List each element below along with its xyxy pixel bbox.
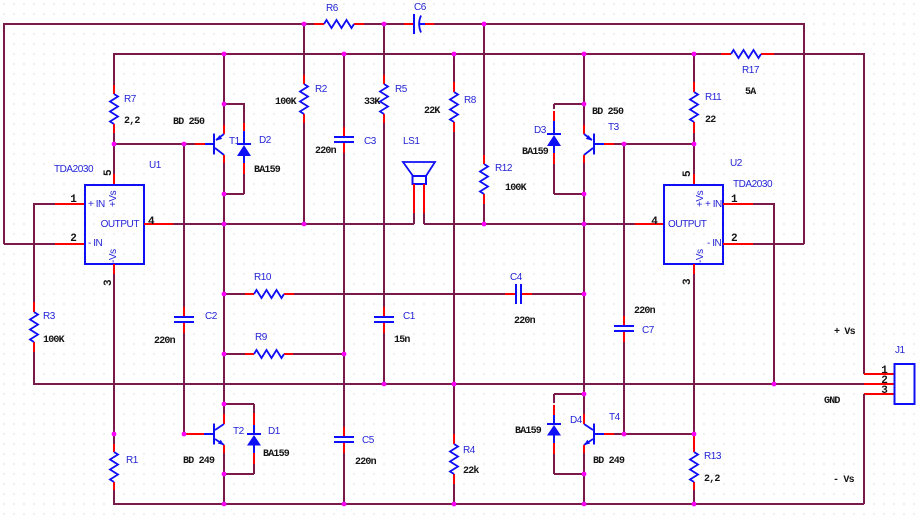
wire R5 to C1	[383, 123, 385, 307]
op-amp U1 TDA2030 box	[85, 185, 144, 264]
resistor R2 column from top rail	[303, 24, 305, 75]
svg-text:33K: 33K	[364, 97, 380, 108]
wire x34 column to R3	[33, 203, 35, 302]
label U1	[54, 160, 162, 175]
svg-text:R10: R10	[254, 272, 272, 283]
wire C7 to T4 base row	[623, 342, 625, 434]
resistor R12	[480, 155, 488, 204]
resistor R7	[110, 85, 118, 133]
svg-text:100K: 100K	[43, 335, 65, 346]
svg-text:R12: R12	[495, 163, 513, 174]
label D2	[254, 135, 281, 176]
wire R13 to bottom rail	[693, 490, 695, 504]
capacitor C1	[374, 307, 394, 333]
resistor R13	[690, 434, 698, 490]
svg-text:R1: R1	[126, 455, 139, 466]
svg-text:- IN: - IN	[88, 238, 103, 249]
wire LS1 left lead	[413, 184, 415, 213]
svg-text:C4: C4	[510, 272, 523, 283]
svg-text:R2: R2	[315, 84, 328, 95]
wire x224 T1 collector upper	[223, 104, 225, 125]
wire J1 pin1 red lead	[864, 373, 894, 375]
wire R12 to row y224	[483, 204, 485, 224]
wire T4 emitter red	[583, 445, 585, 453]
wire x224 rail2 to D2 loop node	[223, 53, 225, 104]
wire D2 bottom loop	[224, 174, 244, 194]
node D1 D4 loop bottoms	[222, 472, 587, 477]
label J1 pin numbers	[881, 365, 888, 397]
label T3	[592, 107, 624, 133]
wire R8 column from rail2	[453, 54, 455, 82]
wire R1 to bottom rail corner	[113, 490, 115, 504]
svg-text:U1: U1	[149, 160, 162, 171]
svg-text:TDA2030: TDA2030	[54, 164, 94, 175]
wire x224 column output row to R10 row	[223, 224, 225, 294]
svg-text:BD 249: BD 249	[183, 456, 215, 467]
connector J1 box	[895, 364, 915, 404]
wire x584 column C4 node to T4 node	[583, 294, 585, 394]
resistor R3	[30, 302, 38, 352]
label C3	[315, 136, 377, 157]
wire R9 to C3 column	[293, 353, 344, 355]
wire C1 to gnd rail	[383, 333, 385, 384]
wire C2 column top	[183, 143, 185, 307]
wire T3 base node to U2 pin5	[693, 144, 695, 174]
svg-text:OUTPUT: OUTPUT	[668, 219, 707, 230]
label R17	[742, 65, 760, 98]
svg-text:2,2: 2,2	[124, 116, 140, 127]
pin 3 U2 red lead	[693, 264, 695, 274]
svg-text:220n: 220n	[315, 146, 337, 157]
label R13	[704, 451, 722, 485]
node bottom rail	[222, 502, 697, 507]
svg-text:BA159: BA159	[515, 426, 542, 437]
wire R5 column from top rail	[383, 24, 385, 75]
label T1	[173, 117, 241, 147]
node junctions rail2	[222, 52, 697, 57]
svg-text:100K: 100K	[275, 97, 297, 108]
wire T1 base node to U1 pin5	[113, 144, 115, 174]
diode D2 BA159	[237, 123, 251, 174]
resistor R9	[245, 350, 293, 358]
wire D1 bottom loop	[224, 464, 254, 474]
label R3	[43, 311, 65, 346]
label U2 pin names	[668, 190, 722, 263]
svg-text:R11: R11	[705, 92, 722, 103]
node R9 row	[222, 352, 347, 357]
svg-text:D4: D4	[570, 415, 583, 426]
wire LS1 right row y224 to U2 pin4	[424, 223, 635, 225]
label R11	[705, 92, 722, 126]
wire left edge column x4	[3, 23, 5, 244]
svg-text:D3: D3	[534, 125, 547, 136]
wire J1 pin2 red lead	[864, 383, 894, 385]
wire x224 T2 emitter to D1 loop	[223, 453, 225, 474]
svg-text:LS1: LS1	[403, 136, 420, 147]
diode D4 BA159	[547, 405, 561, 454]
capacitor C6	[404, 14, 434, 34]
svg-text:BA159: BA159	[522, 147, 549, 158]
svg-text:-Vs: -Vs	[695, 249, 706, 263]
wire x224 D1 loop to bottom rail	[223, 474, 225, 504]
wire T4 base row to R13 column	[614, 433, 694, 435]
svg-text:22K: 22K	[424, 106, 440, 117]
wire x584 column T3 to row y224	[583, 163, 585, 224]
wire T1 emitter lower red	[223, 155, 225, 163]
transistor T2 BD249	[184, 424, 224, 446]
svg-text:OUTPUT: OUTPUT	[101, 219, 140, 230]
wire x224 column R9 row to T2 node	[223, 354, 225, 404]
diode D3 BA159	[547, 111, 561, 164]
wire R10 to C4	[294, 293, 505, 295]
wire x224 column T1 to output row	[223, 163, 225, 224]
svg-text:220n: 220n	[154, 336, 176, 347]
resistor R11	[690, 82, 698, 133]
svg-text:+ IN: + IN	[705, 199, 722, 210]
label R2	[275, 84, 328, 108]
svg-text:R8: R8	[464, 95, 477, 106]
node D2 D3 loop tops	[222, 102, 587, 107]
wire C3 to R9 node	[343, 153, 345, 354]
wire gnd rail to R4	[453, 384, 455, 434]
svg-text:R3: R3	[43, 311, 56, 322]
wire gnd rail y384	[33, 383, 864, 385]
svg-text:+ Vs: + Vs	[834, 327, 856, 338]
capacitor C7	[614, 316, 634, 342]
svg-text:BD 250: BD 250	[592, 107, 624, 118]
svg-text:T1: T1	[229, 136, 241, 147]
label U2 pin numbers	[651, 170, 738, 285]
wire R7 to T1 base node	[113, 133, 115, 144]
label C2	[154, 311, 218, 347]
wire x804 top rail to U2 pin2	[803, 23, 805, 244]
wire x584 T3 collector upper	[583, 104, 585, 125]
wire U2 pin1 row	[723, 203, 753, 205]
wire R4 to bottom rail	[453, 484, 455, 504]
wire U2 pin1 column x774 to gnd	[773, 203, 775, 384]
svg-text:220n: 220n	[634, 306, 656, 317]
svg-text:22k: 22k	[463, 465, 479, 477]
wire C3 column from rail2	[343, 53, 345, 127]
svg-text:J1: J1	[895, 345, 906, 356]
resistor R4	[450, 434, 458, 484]
wire R11 to T3 base row node	[693, 133, 695, 144]
wire x114 rail2 to R7	[113, 53, 115, 85]
svg-text:C6: C6	[414, 2, 427, 13]
svg-text:R6: R6	[326, 3, 339, 14]
label R4	[463, 445, 479, 477]
wire x864 rail2 to J1 pin1	[863, 53, 865, 374]
capacitor C4	[505, 284, 532, 304]
wire C7 column from T3 base row	[623, 143, 625, 316]
svg-text:R17: R17	[742, 65, 760, 76]
wire C5 to bottom rail	[343, 453, 345, 504]
svg-text:TDA2030: TDA2030	[733, 179, 773, 190]
pin 5 U2 red lead	[693, 174, 695, 185]
label C1	[394, 311, 416, 346]
svg-text:BA159: BA159	[263, 449, 290, 460]
svg-text:5A: 5A	[745, 87, 756, 98]
wire U1 output row y224	[144, 223, 173, 225]
pin 3 U1 red lead	[113, 264, 115, 274]
wire T3 base row to R11 column	[614, 143, 694, 145]
svg-text:15n: 15n	[394, 335, 410, 346]
svg-text:T3: T3	[608, 122, 620, 133]
svg-text:-Vs: -Vs	[108, 249, 119, 263]
resistor R10 row from x224	[224, 293, 245, 295]
svg-text:+ IN: + IN	[88, 199, 105, 210]
label R5	[364, 84, 408, 108]
op-amp U2 TDA2030 box	[664, 185, 723, 264]
wire T3 emitter red	[583, 155, 585, 163]
resistor R2	[300, 75, 308, 123]
node R10 row	[222, 292, 587, 297]
node junctions top rail	[302, 22, 487, 27]
wire x584 D4 loop to bottom rail	[583, 474, 585, 504]
resistor R9 row from x224	[224, 353, 245, 355]
svg-text:2: 2	[70, 233, 76, 245]
resistor R1	[110, 444, 118, 490]
svg-text:D1: D1	[268, 426, 281, 437]
svg-text:C2: C2	[205, 311, 218, 322]
svg-text:R4: R4	[463, 445, 476, 456]
wire C4 to x584 column	[532, 293, 584, 295]
label D1	[263, 426, 290, 460]
wire R3 to gnd rail	[33, 352, 35, 384]
capacitor C3	[334, 127, 354, 153]
wire R12 column from top rail	[483, 24, 485, 155]
node output rows	[222, 222, 587, 227]
svg-text:R9: R9	[255, 332, 268, 343]
wire U1 pin1 row	[34, 203, 55, 205]
wire R8 to gnd rail	[453, 132, 455, 384]
wire bottom rail y504	[113, 503, 864, 505]
node gnd rail	[382, 382, 777, 387]
wire U1 pin3 column down	[113, 274, 115, 444]
label T4	[593, 412, 625, 467]
transistor T4 BD249	[584, 424, 614, 446]
svg-text:BD 249: BD 249	[593, 456, 625, 467]
wire T2 emitter red	[223, 445, 225, 453]
svg-text:GND: GND	[824, 396, 840, 407]
resistor R8	[450, 82, 458, 132]
wire R11 column from rail2	[693, 54, 695, 82]
label T2	[183, 426, 245, 467]
resistor R10	[245, 290, 294, 298]
svg-text:- IN: - IN	[707, 238, 722, 249]
node T1 T3 base rows	[112, 142, 697, 147]
wire T2 collector	[223, 404, 225, 414]
label C7	[634, 306, 656, 336]
svg-text:T4: T4	[609, 412, 621, 423]
capacitor C2	[174, 307, 194, 333]
wire T4 collector	[583, 394, 585, 414]
svg-text:D2: D2	[259, 135, 272, 146]
resistor R6 leads	[314, 23, 364, 25]
wire U2 pin3 column down	[693, 274, 695, 434]
resistor R6	[324, 20, 354, 28]
svg-text:+Vs: +Vs	[108, 190, 119, 207]
wire x584 T4 emitter to D4 loop	[583, 453, 585, 474]
wire C2 column bottom	[183, 333, 185, 434]
svg-text:2,2: 2,2	[704, 474, 720, 485]
wire x224 column R10 row to R9 row	[223, 294, 225, 354]
wire D4 top loop	[554, 394, 584, 403]
wire x584 column row224 to C4 node	[583, 224, 585, 294]
wire D4 bottom loop	[554, 454, 584, 474]
label U1 pin names	[88, 190, 139, 263]
wire U2 pin2 row	[723, 243, 753, 245]
diode D1 BA159	[247, 413, 261, 464]
svg-text:T2: T2	[233, 426, 245, 437]
label D3	[522, 125, 549, 158]
label D4	[515, 415, 583, 437]
svg-text:U2: U2	[730, 158, 743, 169]
wire D3 bottom loop	[554, 164, 584, 194]
wire D2 top loop	[224, 104, 245, 123]
label R7	[124, 94, 140, 127]
node D2 D3 loop bottoms	[222, 192, 587, 197]
pin 5 U1 red lead	[113, 174, 115, 185]
wire D3 top loop	[554, 104, 584, 109]
label U2	[730, 158, 773, 190]
wire rail2 y54	[114, 53, 864, 55]
svg-text:220n: 220n	[355, 457, 377, 468]
svg-text:100K: 100K	[505, 183, 527, 194]
wire top rail y24	[4, 23, 804, 25]
svg-text:R5: R5	[395, 84, 408, 95]
wire D1 top loop	[224, 404, 254, 413]
svg-text:2: 2	[731, 233, 737, 245]
svg-text:C1: C1	[403, 311, 416, 322]
label C4	[510, 272, 536, 327]
svg-text:- Vs: - Vs	[833, 475, 855, 486]
wire J1 pin3 red lead	[864, 393, 894, 395]
wire x584 rail2 to D3 loop node	[583, 53, 585, 104]
node T2 T4 base rows	[112, 432, 697, 437]
wire x864 J1 pin3 to bottom rail	[863, 394, 865, 504]
svg-text:R13: R13	[704, 451, 722, 462]
node T2 T4 collector loops	[222, 392, 587, 407]
wire U1 pin2 row	[4, 243, 55, 245]
wire LS1 right lead	[423, 184, 425, 213]
resistor R5	[380, 75, 388, 123]
svg-text:22: 22	[705, 115, 716, 126]
label U1 pin numbers	[70, 169, 155, 286]
svg-text:BA159: BA159	[254, 165, 281, 176]
svg-text:C3: C3	[364, 136, 377, 147]
svg-text:R7: R7	[124, 94, 137, 105]
svg-text:BD 250: BD 250	[173, 117, 205, 128]
wire T1 base row	[114, 143, 195, 145]
label R8	[424, 95, 477, 117]
svg-text:220n: 220n	[514, 316, 536, 327]
transistor T3 BD250	[584, 134, 614, 156]
label R12	[495, 163, 527, 194]
wire R2 to output row	[303, 123, 305, 224]
svg-text:C7: C7	[642, 325, 655, 336]
capacitor C5	[334, 427, 354, 453]
svg-text:+Vs: +Vs	[695, 190, 706, 207]
resistor R17	[721, 50, 774, 58]
label C5	[355, 435, 377, 468]
wire C3 column R9 node to C5	[343, 354, 345, 427]
speaker LS1	[403, 162, 435, 184]
svg-text:C5: C5	[362, 435, 375, 446]
transistor T1 BD250	[204, 134, 224, 156]
